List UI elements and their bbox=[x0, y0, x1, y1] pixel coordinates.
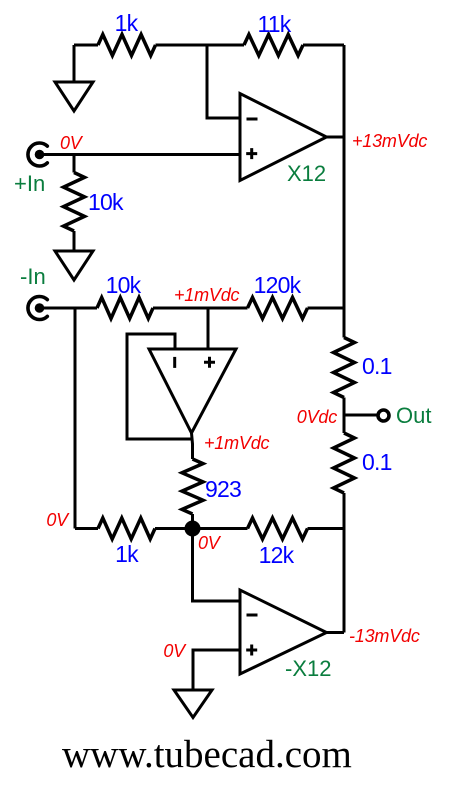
svg-text:10k: 10k bbox=[106, 272, 142, 298]
wire U2 feedback minus input bbox=[127, 334, 192, 439]
pin plus U1 bbox=[246, 148, 257, 159]
resistor R 10k (vertical) bbox=[64, 173, 85, 232]
wire junction down to U3 minus input bbox=[193, 529, 241, 602]
wire -In row left segment bbox=[43, 307, 97, 310]
resistor R 1k (bottom) bbox=[98, 518, 155, 539]
svg-text:X12: X12 bbox=[287, 161, 326, 186]
svg-text:0V: 0V bbox=[60, 133, 84, 153]
svg-text:www.tubecad.com: www.tubecad.com bbox=[62, 733, 352, 776]
svg-text:923: 923 bbox=[205, 476, 241, 502]
resistor R 11k bbox=[244, 35, 303, 56]
wire top rail left segment bbox=[74, 44, 98, 47]
wire U3 plus input from ground bbox=[193, 650, 240, 690]
resistor R 923 bbox=[182, 459, 203, 514]
wire bottom row mid segment bbox=[155, 527, 248, 530]
wire stub to 10k vertical bbox=[73, 155, 76, 173]
wire +In to U1 plus input bbox=[43, 153, 240, 156]
svg-text:+1mVdc: +1mVdc bbox=[204, 433, 270, 453]
pin minus U1 bbox=[247, 118, 258, 121]
svg-text:+In: +In bbox=[14, 171, 45, 196]
ground (top-left) bbox=[55, 82, 93, 111]
svg-text:0.1: 0.1 bbox=[362, 353, 392, 379]
svg-text:+1mVdc: +1mVdc bbox=[174, 285, 240, 305]
wire bottom row left segment bbox=[75, 527, 98, 530]
wire right rail upper segment bbox=[343, 45, 346, 338]
wire left rail from -In down bbox=[74, 308, 77, 529]
svg-text:0V: 0V bbox=[198, 533, 222, 553]
op-amp U1 X12 (top) bbox=[240, 94, 327, 181]
pin plus U3 bbox=[246, 645, 257, 656]
svg-text:-13mVdc: -13mVdc bbox=[349, 626, 420, 646]
terminal Out bbox=[378, 410, 389, 421]
wire to Out terminal bbox=[344, 414, 377, 417]
svg-text:11k: 11k bbox=[258, 11, 292, 37]
resistor R 120k bbox=[248, 298, 308, 319]
wire right rail lower segment bbox=[343, 493, 346, 633]
wire right rail mid segment bbox=[343, 398, 346, 434]
resistor R 0.1 (upper) bbox=[334, 338, 355, 398]
wire bottom row right segment bbox=[308, 527, 345, 530]
wire top rail right segment bbox=[303, 44, 344, 47]
input jack -In bbox=[28, 297, 47, 320]
resistor R 12k bbox=[248, 518, 308, 539]
resistor R 10k (mid) bbox=[97, 298, 153, 319]
op-amp U3 -X12 (bottom) bbox=[240, 590, 327, 674]
resistor R 1k (top) bbox=[98, 35, 156, 56]
svg-text:-X12: -X12 bbox=[285, 656, 331, 681]
svg-text:Out: Out bbox=[396, 403, 431, 428]
wire to ground top-left bbox=[73, 45, 76, 82]
pin plus U2 bbox=[204, 357, 215, 368]
wire junction 1k/11k down to op-amp inverting input bbox=[207, 45, 240, 118]
svg-text:0Vdc: 0Vdc bbox=[297, 407, 337, 427]
wire -In row right segment bbox=[308, 307, 345, 310]
svg-text:12k: 12k bbox=[259, 542, 295, 568]
wire top rail mid segment bbox=[156, 44, 245, 47]
pin minus U3 bbox=[247, 614, 258, 617]
wire U1 output to right rail bbox=[327, 136, 345, 139]
svg-text:120k: 120k bbox=[254, 272, 302, 298]
svg-text:0.1: 0.1 bbox=[362, 449, 392, 475]
wire 923 to junction bbox=[191, 514, 194, 529]
input jack +In bbox=[28, 143, 47, 166]
svg-text:0V: 0V bbox=[163, 641, 187, 661]
svg-text:1k: 1k bbox=[115, 10, 139, 36]
ground (mid-left) bbox=[55, 251, 93, 280]
svg-text:+13mVdc: +13mVdc bbox=[352, 131, 427, 151]
junction node 0V bbox=[185, 521, 201, 537]
wire node to U2 plus input bbox=[207, 308, 210, 349]
svg-text:10k: 10k bbox=[88, 189, 124, 215]
ground (bottom) bbox=[174, 690, 212, 718]
op-amp U2 unity buffer (pointing down) bbox=[149, 349, 236, 433]
svg-text:1k: 1k bbox=[115, 541, 139, 567]
wire 10k to ground bbox=[73, 231, 76, 251]
svg-text:-In: -In bbox=[20, 264, 46, 289]
pin minus U2 bbox=[173, 357, 176, 368]
wire U3 output to right rail bbox=[327, 631, 345, 634]
wire -In row mid segment bbox=[153, 307, 248, 310]
wire U2 output down bbox=[192, 433, 193, 459]
resistor R 0.1 (lower) bbox=[334, 433, 355, 493]
svg-text:0V: 0V bbox=[46, 510, 70, 530]
